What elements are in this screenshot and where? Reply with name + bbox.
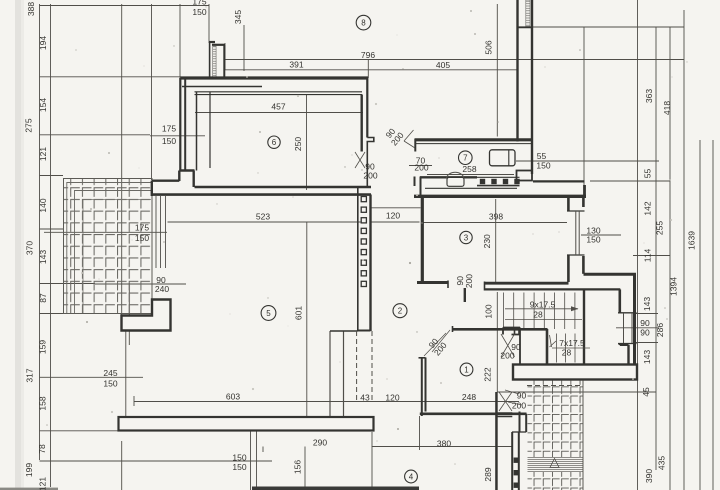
svg-text:345: 345 xyxy=(233,10,243,24)
svg-text:390: 390 xyxy=(644,469,654,483)
svg-text:9x17.5: 9x17.5 xyxy=(530,300,556,310)
svg-text:3: 3 xyxy=(464,233,469,242)
wall piece above bar left xyxy=(503,328,520,366)
lower flight treads xyxy=(557,334,576,363)
svg-text:150: 150 xyxy=(232,453,246,463)
outer east wall top xyxy=(584,273,637,276)
room 2 xyxy=(393,304,407,318)
room3 bottom wall right double xyxy=(484,282,569,285)
east window glass xyxy=(624,313,633,343)
dashed beam lines xyxy=(356,331,358,402)
room6 block outer top wall xyxy=(181,76,369,79)
svg-text:258: 258 xyxy=(462,164,476,174)
svg-text:289: 289 xyxy=(483,467,493,481)
svg-text:457: 457 xyxy=(271,102,285,112)
svg-text:158: 158 xyxy=(38,396,48,410)
room1 left wall xyxy=(422,358,426,417)
svg-text:523: 523 xyxy=(256,212,270,222)
outer east wall right xyxy=(633,275,636,380)
svg-text:796: 796 xyxy=(361,50,375,60)
svg-text:120: 120 xyxy=(385,393,399,403)
svg-text:250: 250 xyxy=(293,137,303,151)
svg-text:200: 200 xyxy=(363,171,377,181)
scan dark edge bottom left xyxy=(0,488,58,490)
svg-text:405: 405 xyxy=(436,60,450,70)
room7 top wall xyxy=(415,138,533,141)
svg-text:6: 6 xyxy=(272,138,277,147)
speckles xyxy=(246,76,248,78)
room 6 xyxy=(268,136,280,148)
svg-text:2: 2 xyxy=(398,307,403,316)
svg-text:150: 150 xyxy=(135,233,149,243)
svg-text:100: 100 xyxy=(484,304,494,318)
svg-text:1394: 1394 xyxy=(669,277,679,296)
svg-text:222: 222 xyxy=(483,367,493,381)
room5 top wall double xyxy=(195,186,372,188)
svg-text:391: 391 xyxy=(289,60,303,70)
svg-text:45: 45 xyxy=(641,387,651,397)
svg-text:121: 121 xyxy=(38,147,48,161)
svg-text:1639: 1639 xyxy=(687,231,697,250)
svg-text:4: 4 xyxy=(409,472,414,481)
svg-text:114: 114 xyxy=(643,248,653,262)
door jamb stub below room3 bottom wall xyxy=(464,288,466,302)
svg-text:28: 28 xyxy=(562,348,572,358)
room3 bottom wall left segment xyxy=(417,281,448,284)
svg-text:90: 90 xyxy=(640,328,650,338)
svg-text:90: 90 xyxy=(640,318,650,328)
svg-text:121: 121 xyxy=(38,477,48,490)
svg-text:175: 175 xyxy=(162,124,176,134)
leader 7x17.5 xyxy=(550,335,557,347)
svg-text:150: 150 xyxy=(586,235,600,245)
svg-text:150: 150 xyxy=(103,378,117,388)
svg-text:388: 388 xyxy=(26,2,36,16)
stair east wall xyxy=(583,290,585,364)
svg-text:435: 435 xyxy=(657,456,667,470)
room1 bottom wall xyxy=(420,412,527,415)
balcony parapet bar below room5 xyxy=(119,417,374,431)
svg-text:142: 142 xyxy=(643,201,653,215)
terrace tile hatch area left xyxy=(64,179,153,314)
stair direction arrow 9x17.5 xyxy=(505,308,578,310)
svg-text:143: 143 xyxy=(38,250,48,264)
room 1 xyxy=(460,363,473,376)
chimney top left xyxy=(209,42,211,79)
svg-text:120: 120 xyxy=(386,211,400,221)
svg-text:154: 154 xyxy=(38,98,48,112)
door X room6-south (90/200) xyxy=(355,152,365,168)
dashed line below bar xyxy=(527,385,582,387)
svg-text:87: 87 xyxy=(38,293,48,303)
svg-text:140: 140 xyxy=(38,198,48,212)
svg-text:245: 245 xyxy=(103,368,117,378)
top right double wall xyxy=(518,0,533,174)
svg-text:317: 317 xyxy=(25,368,35,382)
top right chimney hatched strip xyxy=(526,0,530,27)
insulation squares column xyxy=(361,197,366,202)
room6 left wall xyxy=(179,78,181,171)
room1 labels xyxy=(425,334,449,357)
bathtub room7 xyxy=(490,150,516,166)
svg-text:380: 380 xyxy=(437,439,451,449)
svg-text:506: 506 xyxy=(484,40,494,54)
svg-text:286: 286 xyxy=(655,323,665,337)
room 4 xyxy=(405,470,418,483)
svg-text:175: 175 xyxy=(135,223,149,233)
svg-text:255: 255 xyxy=(655,221,665,235)
svg-text:199: 199 xyxy=(24,463,34,477)
svg-text:370: 370 xyxy=(25,241,35,255)
svg-text:7x17.5: 7x17.5 xyxy=(559,338,585,348)
svg-text:28: 28 xyxy=(533,310,543,320)
svg-text:603: 603 xyxy=(226,392,240,402)
wall stub below squares wall xyxy=(330,331,344,417)
svg-text:150: 150 xyxy=(162,136,176,146)
dense stair band bottom right xyxy=(528,457,584,471)
svg-text:240: 240 xyxy=(155,284,169,294)
svg-text:601: 601 xyxy=(294,306,304,320)
staircase: upper flight treads xyxy=(504,293,575,330)
svg-text:8: 8 xyxy=(361,19,366,28)
svg-text:156: 156 xyxy=(293,460,303,474)
svg-text:200: 200 xyxy=(414,163,428,173)
svg-text:418: 418 xyxy=(662,101,672,115)
rooms 2-3 top wall xyxy=(414,195,586,198)
room 3 xyxy=(460,231,472,243)
svg-text:43: 43 xyxy=(360,393,370,403)
svg-text:55: 55 xyxy=(537,151,547,161)
svg-text:150: 150 xyxy=(536,161,550,171)
svg-text:143: 143 xyxy=(642,297,652,311)
terrace step L-block bottom left xyxy=(122,300,171,331)
washbasin room7 xyxy=(447,172,464,178)
svg-text:159: 159 xyxy=(38,340,48,354)
column joint left (terrace corner) xyxy=(152,171,195,197)
door diagonals room1 top-left xyxy=(424,330,450,356)
svg-text:248: 248 xyxy=(462,392,476,402)
wall west of bottom-right door xyxy=(495,392,497,490)
bottom-right tile hatch xyxy=(528,381,584,458)
room3 right wall lower xyxy=(567,255,570,282)
room 7 xyxy=(459,151,473,165)
room7 west wall pair xyxy=(414,177,416,187)
svg-text:194: 194 xyxy=(38,36,48,50)
svg-text:200: 200 xyxy=(464,274,474,289)
door swing room7 left (90/200) xyxy=(404,130,415,148)
room3 right wall upper jog xyxy=(567,196,570,212)
top right wall corner block xyxy=(517,171,533,181)
room3 window east glass xyxy=(576,211,579,255)
svg-text:7: 7 xyxy=(463,154,468,163)
svg-text:150: 150 xyxy=(192,7,206,17)
room3 left wall xyxy=(421,196,424,284)
svg-text:275: 275 xyxy=(24,118,34,132)
door X marks stairs (90/200) xyxy=(501,334,515,357)
svg-text:175: 175 xyxy=(192,0,206,7)
room6 inner top edge xyxy=(195,92,363,95)
stair lower-left wall xyxy=(546,329,549,364)
scan fold band left xyxy=(15,0,23,490)
room 5 xyxy=(261,306,276,321)
svg-text:55: 55 xyxy=(643,169,653,179)
svg-text:363: 363 xyxy=(644,89,654,103)
room6 right wall + jog xyxy=(361,95,363,152)
svg-text:143: 143 xyxy=(642,350,652,364)
bottom wall room4 xyxy=(252,487,419,490)
wall below room1 right, with squares xyxy=(512,432,519,490)
thick bottom bar wall (south of stairs) xyxy=(513,365,637,380)
svg-text:150: 150 xyxy=(232,462,246,472)
svg-text:78: 78 xyxy=(37,444,47,454)
svg-text:5: 5 xyxy=(266,309,271,318)
inner east wall nook xyxy=(618,289,621,313)
room 8 xyxy=(356,15,371,30)
svg-text:398: 398 xyxy=(489,212,503,222)
svg-text:230: 230 xyxy=(482,234,492,248)
svg-text:290: 290 xyxy=(313,438,327,448)
svg-text:200: 200 xyxy=(500,351,514,361)
svg-text:90: 90 xyxy=(517,391,527,401)
svg-text:200: 200 xyxy=(512,401,526,411)
door X bottom right (90/200) xyxy=(499,392,512,411)
svg-text:1: 1 xyxy=(464,365,469,374)
landing wall (room1 top / stair) xyxy=(452,328,548,331)
room5 right wall with insulation squares xyxy=(357,187,359,331)
room7 bottom wall + insulation xyxy=(420,176,477,178)
